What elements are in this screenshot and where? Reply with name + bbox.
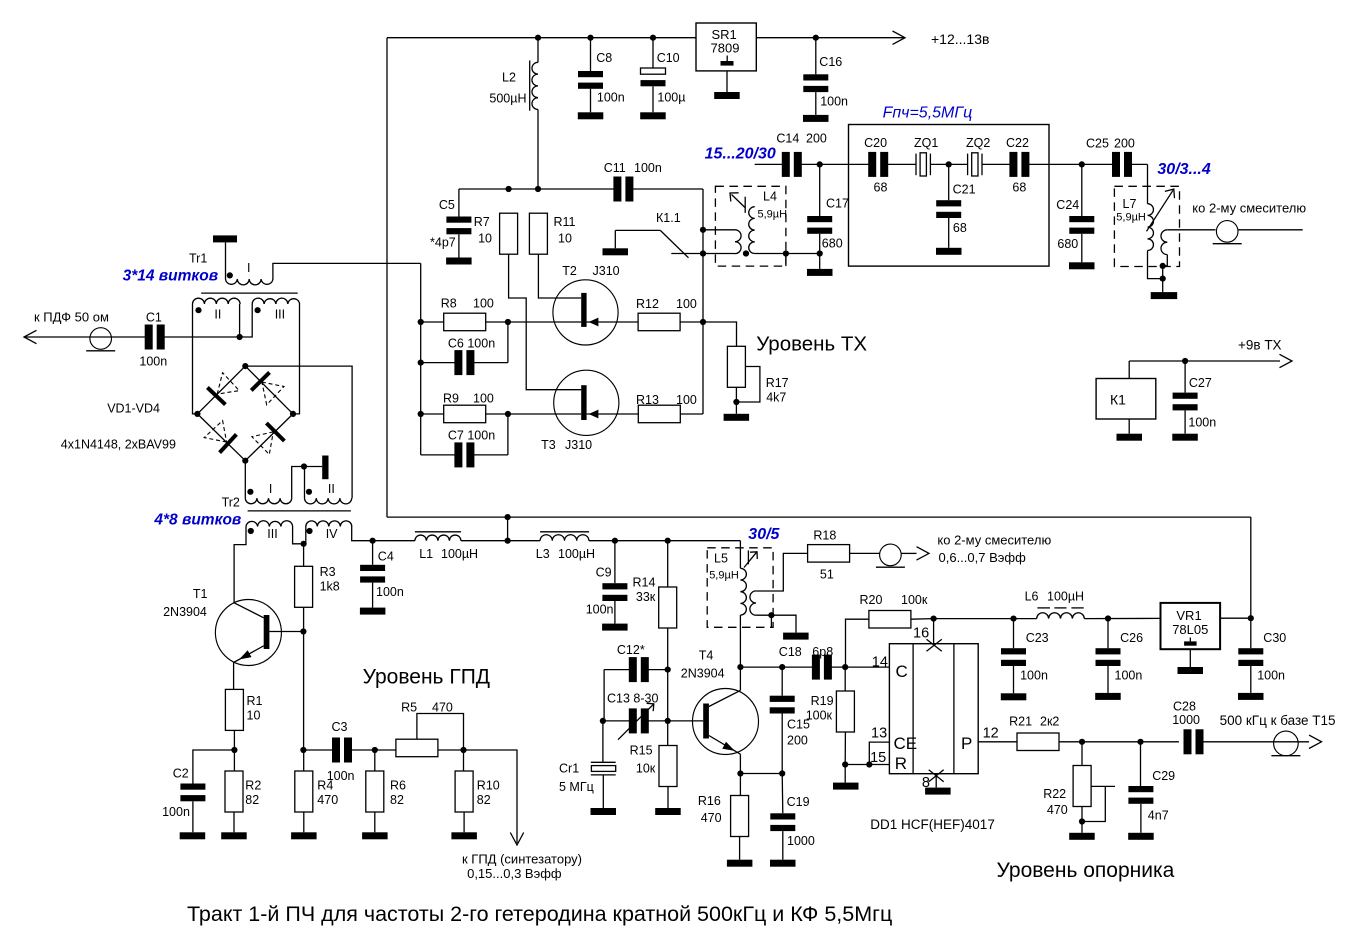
svg-text:30/5: 30/5 (748, 526, 780, 543)
wire filter internal (849, 163, 870, 165)
svg-text:R20: R20 (860, 593, 883, 607)
svg-text:15: 15 (870, 750, 886, 766)
svg-text:L4: L4 (763, 190, 777, 204)
ground under R22 (1069, 833, 1095, 840)
ground under C30 (1238, 693, 1264, 700)
wire VR1 out (1220, 617, 1251, 619)
inductor L4 winding (749, 207, 755, 254)
svg-text:R21: R21 (1009, 715, 1032, 729)
pin8 X mark and ground (929, 770, 944, 782)
transistor T1 2N3904 (215, 600, 281, 666)
resistor R18 51 (808, 545, 850, 563)
svg-text:51: 51 (820, 568, 834, 582)
ground under K1 (1117, 434, 1143, 441)
inductor L5 winding (740, 568, 746, 615)
svg-text:C26: C26 (1120, 631, 1143, 645)
L4 tuning arrow (732, 195, 746, 209)
svg-text:К1.1: К1.1 (656, 211, 681, 225)
capacitor C1 100n (145, 325, 153, 350)
wire +12V bus right drop to VR1 (1250, 517, 1252, 618)
svg-text:III: III (267, 527, 277, 541)
wire T4 emitter row (740, 773, 782, 775)
svg-text:13: 13 (871, 726, 887, 742)
wire R11 to T2 gate (538, 254, 581, 298)
svg-text:T4: T4 (699, 649, 714, 663)
wire +12V top rail left segment (387, 37, 696, 39)
svg-text:6p8: 6p8 (812, 645, 833, 659)
svg-text:R15: R15 (630, 744, 653, 758)
svg-text:100: 100 (473, 297, 494, 311)
capacitor C27 100n (1184, 361, 1186, 393)
svg-text:4*8 витков: 4*8 витков (153, 512, 241, 529)
svg-text:R: R (895, 754, 907, 773)
node ferrite bead output 2nd mixer (880, 544, 902, 566)
inductor L1 100uH (415, 531, 461, 533)
svg-text:P: P (961, 734, 972, 753)
capacitor C28 1000 (1184, 729, 1192, 754)
svg-text:82: 82 (390, 793, 404, 807)
svg-text:VR1: VR1 (1176, 608, 1201, 623)
svg-text:R1: R1 (247, 694, 263, 708)
capacitor C5 *4p7 (458, 189, 460, 217)
wire L7 bottoms to ground (1148, 251, 1163, 279)
svg-text:R11: R11 (554, 215, 576, 229)
svg-text:C11: C11 (604, 161, 626, 175)
svg-text:R12: R12 (636, 297, 659, 311)
resistor R11 10 (529, 213, 547, 254)
svg-text:5,9µН: 5,9µН (758, 209, 788, 221)
svg-text:100n: 100n (139, 355, 167, 369)
svg-text:R2: R2 (245, 779, 261, 793)
svg-text:100µ: 100µ (657, 91, 685, 105)
wire Tr2-I right to chassis (292, 467, 323, 499)
Tr1 core (201, 292, 298, 294)
capacitor C15 200 (781, 667, 783, 696)
svg-text:100к: 100к (901, 593, 928, 607)
svg-text:Tr2: Tr2 (222, 496, 240, 510)
wire pin13 jog (869, 742, 889, 764)
ground under C2 (180, 832, 206, 839)
svg-text:100: 100 (676, 297, 697, 311)
svg-text:100к: 100к (806, 709, 833, 723)
wire T4 emitter with arrow (709, 736, 741, 755)
svg-text:IV: IV (326, 527, 338, 541)
resistor R3 1k8 (303, 544, 305, 567)
transformer L5 secondary winding (750, 591, 756, 615)
L7 tuning arrow (1147, 190, 1174, 231)
wire L1/L3 feed row (373, 540, 415, 542)
transformer Tr2 winding IV (306, 521, 352, 527)
wire T1 base (269, 631, 303, 633)
wire GPD output (464, 750, 518, 843)
diode VD2 (251, 372, 269, 390)
svg-text:C29: C29 (1152, 769, 1175, 783)
R22 wiper tap (1091, 785, 1115, 787)
R17 wiper tap (736, 367, 760, 403)
resistor R13 100 (638, 405, 680, 423)
svg-text:100n: 100n (597, 91, 625, 105)
wire gate bias rail (459, 188, 615, 190)
transformer Tr1 winding III (252, 298, 299, 304)
svg-text:Tr1: Tr1 (189, 252, 207, 266)
svg-text:T3: T3 (541, 438, 556, 452)
wire L4 shield tie (785, 254, 787, 267)
L7 shield dashed box (1114, 186, 1179, 266)
ground under L7 (1151, 292, 1178, 299)
ground under C24 (1069, 262, 1095, 269)
node input arrow k PDF 50 om (24, 330, 37, 343)
crystal Cr1 5MHz (602, 721, 604, 762)
svg-text:C17: C17 (826, 197, 849, 211)
svg-text:C23: C23 (1026, 631, 1049, 645)
svg-text:5 МГц: 5 МГц (559, 780, 594, 794)
chassis bar above Tr1 (213, 235, 237, 242)
wire L5 bottom to T4 collector (739, 615, 741, 667)
svg-text:10: 10 (247, 709, 261, 723)
wire L4 top to C14 (755, 163, 783, 165)
ground under R19 (844, 765, 846, 783)
svg-text:C16: C16 (819, 55, 842, 69)
resistor R7 10 (500, 213, 518, 254)
wire pin16 (933, 619, 935, 644)
transformer Tr2 winding III (246, 521, 293, 527)
svg-text:R3: R3 (320, 565, 336, 579)
svg-text:C3: C3 (332, 720, 348, 734)
resistor R21 2k2 (1017, 733, 1059, 751)
svg-text:C6 100n: C6 100n (448, 337, 495, 351)
capacitor C11 100n (613, 177, 621, 202)
wire +12V top rail right segment (756, 37, 904, 39)
resistor R1 10 (225, 689, 243, 730)
regulator VR1 78L05 (1161, 603, 1221, 649)
wire bus tap to L1 row (507, 517, 509, 541)
svg-text:1000: 1000 (787, 834, 815, 848)
svg-text:200: 200 (787, 734, 808, 748)
wire Tr2-III right to R3 (293, 527, 304, 544)
svg-text:C: C (896, 662, 908, 681)
ground under C19 (770, 860, 796, 867)
IC DD1 4017 box (889, 644, 978, 774)
wire Tr1-II right to center tap (239, 304, 241, 337)
wire C11 to K1.1 node (632, 188, 703, 190)
svg-text:33к: 33к (636, 590, 656, 604)
svg-text:C22: C22 (1006, 136, 1029, 150)
svg-text:3*14 витков: 3*14 витков (123, 268, 219, 285)
L5 tuning arrow (744, 552, 757, 567)
svg-text:R14: R14 (633, 576, 656, 590)
crystal ZQ1 (915, 154, 917, 176)
ground under C4 (360, 608, 386, 615)
svg-text:2N3904: 2N3904 (163, 605, 207, 619)
diode VD1 (207, 388, 225, 405)
svg-text:0,15...0,3 Вэфф: 0,15...0,3 Вэфф (467, 866, 562, 881)
svg-text:ко 2-му смесителю: ко 2-му смесителю (1192, 201, 1306, 216)
node arrow +12...13v output (893, 31, 906, 44)
wire T4 collector (709, 690, 741, 706)
wire bridge top node to Tr2-II (245, 366, 352, 498)
svg-text:680: 680 (1057, 237, 1078, 251)
wire Tr1-II left to bridge (193, 304, 198, 414)
svg-text:100: 100 (676, 393, 697, 407)
capacitor C8 (587, 35, 593, 41)
inductor L7 winding (1148, 204, 1154, 251)
capacitor C19 1000 (781, 774, 784, 814)
svg-text:5,9µН: 5,9µН (1116, 212, 1146, 224)
svg-text:100µН: 100µН (558, 547, 595, 561)
ground under VR1 (1189, 649, 1191, 667)
svg-text:+9в ТХ: +9в ТХ (1238, 338, 1282, 353)
capacitor C30 100n (1250, 618, 1252, 648)
svg-text:L2: L2 (502, 71, 516, 85)
svg-text:III: III (275, 308, 285, 322)
ground under C10 (640, 112, 666, 119)
svg-text:VD1-VD4: VD1-VD4 (107, 402, 160, 416)
transformer Tr1 winding I (226, 279, 273, 285)
svg-text:100n: 100n (1115, 669, 1143, 683)
wire Tr2-III left to T1 collector (234, 527, 246, 603)
svg-text:100n: 100n (327, 769, 355, 783)
resistor R20 100k (846, 619, 870, 667)
svg-text:680: 680 (822, 237, 843, 251)
svg-text:1k8: 1k8 (320, 580, 340, 594)
svg-text:C4: C4 (378, 550, 394, 564)
svg-text:68: 68 (1012, 181, 1026, 195)
svg-text:C1: C1 (146, 311, 162, 325)
svg-text:68: 68 (953, 221, 967, 235)
svg-text:CE: CE (894, 734, 918, 753)
trimmer resistor R22 470 (1081, 742, 1083, 766)
ground under C26 (1095, 693, 1121, 700)
svg-text:I: I (269, 482, 272, 496)
node ferrite bead output to 2nd mixer (1216, 221, 1238, 243)
svg-text:10: 10 (478, 232, 492, 246)
ground under L5 (783, 633, 809, 640)
ground under R6 (362, 832, 388, 839)
svg-text:J310: J310 (593, 264, 620, 278)
wire R7 to T3 gate (509, 254, 582, 390)
svg-text:ZQ2: ZQ2 (966, 136, 990, 150)
resistor R12 100 (638, 313, 680, 331)
ground under R15 (655, 808, 681, 815)
svg-text:C8: C8 (596, 51, 612, 65)
svg-text:100n: 100n (162, 805, 190, 819)
svg-text:500µH: 500µH (489, 92, 526, 106)
wire T4 collector row (740, 666, 813, 668)
ground under C27 (1172, 434, 1198, 441)
svg-text:R19: R19 (811, 694, 834, 708)
transformer Tr1 winding II (193, 298, 241, 304)
capacitor C23 100n (1013, 619, 1015, 649)
svg-text:Уровень ТХ: Уровень ТХ (756, 333, 867, 356)
capacitor C29 4n7 (1140, 742, 1142, 786)
svg-text:5,9µН: 5,9µН (709, 570, 739, 582)
transformer L4 secondary winding (703, 229, 735, 231)
svg-text:1000: 1000 (1172, 713, 1200, 727)
inductor L2 (535, 35, 541, 41)
svg-text:100n: 100n (1020, 669, 1048, 683)
svg-text:+12...13в: +12...13в (931, 31, 989, 47)
svg-text:100: 100 (473, 392, 494, 406)
potentiometer R5 470 (396, 739, 438, 757)
ground under C23 (1001, 693, 1027, 700)
svg-text:C7 100n: C7 100n (448, 429, 495, 443)
wire L5 secondary bottom to ground (756, 615, 796, 632)
resistor R10 82 (463, 750, 465, 771)
svg-text:82: 82 (245, 793, 259, 807)
svg-text:4x1N4148, 2xBAV99: 4x1N4148, 2xBAV99 (61, 438, 176, 452)
L5 shield dashed box (707, 548, 773, 628)
svg-text:200: 200 (1114, 137, 1135, 151)
wire T1 collector (234, 603, 264, 618)
capacitor C2 100n (193, 750, 235, 784)
inductor L6 100uH (1037, 613, 1085, 619)
svg-text:C28: C28 (1173, 700, 1196, 714)
capacitor C22 68 (1009, 152, 1017, 177)
capacitor C10 (electrolytic) (650, 35, 656, 41)
capacitor C7 100n (421, 454, 456, 456)
svg-text:C2: C2 (173, 767, 189, 781)
capacitor C16 (813, 35, 819, 41)
svg-text:R10: R10 (477, 779, 500, 793)
resistor R6 82 (374, 750, 376, 771)
ground under R16 (727, 860, 753, 867)
wire C12 left down to C13 (603, 670, 605, 721)
svg-text:R6: R6 (390, 779, 406, 793)
svg-text:100µН: 100µН (441, 547, 478, 561)
svg-text:C21: C21 (953, 183, 976, 197)
capacitor C21 68 (948, 164, 950, 200)
svg-text:L1: L1 (419, 547, 433, 561)
diode VD4 (266, 423, 284, 441)
capacitor C24 680 (1081, 164, 1083, 216)
svg-text:C20: C20 (864, 136, 887, 150)
resistor R16 470 (739, 774, 741, 796)
diode bridge ring VD1-VD4 (197, 366, 245, 414)
svg-text:R18: R18 (813, 529, 836, 543)
svg-text:15...20/30: 15...20/30 (705, 146, 776, 163)
svg-text:L3: L3 (536, 547, 550, 561)
ground under C21 (936, 248, 962, 255)
svg-text:2к2: 2к2 (1040, 715, 1059, 729)
capacitor C6 100n (421, 362, 456, 364)
svg-text:Fпч=5,5МГц: Fпч=5,5МГц (883, 105, 973, 122)
ground under C8 (578, 112, 604, 119)
node ferrite bead 500kHz output (1274, 731, 1299, 756)
wire Tr1-I to left mixer bus (273, 263, 421, 279)
chassis bar at Tr2 (322, 456, 328, 480)
ground under R4 (291, 832, 317, 839)
ground under C29 (1128, 833, 1154, 840)
ground under SR1 (726, 71, 728, 92)
svg-text:100µН: 100µН (1047, 590, 1084, 604)
wire T4 base (668, 720, 703, 722)
transformer Tr2 winding I (245, 498, 291, 504)
wire R12 node to R17 (703, 322, 737, 346)
trimmer capacitor C13 8-30 (603, 720, 630, 722)
ground under C5 (446, 258, 472, 265)
svg-text:II: II (214, 308, 221, 322)
svg-text:10к: 10к (636, 762, 656, 776)
svg-text:12: 12 (983, 726, 999, 742)
resistor R4 470 (303, 750, 305, 771)
svg-text:4n7: 4n7 (1148, 809, 1169, 823)
svg-text:7809: 7809 (711, 41, 740, 56)
svg-text:10: 10 (558, 232, 572, 246)
svg-text:*4p7: *4p7 (430, 236, 456, 250)
C13 trimmer arrow (618, 704, 654, 740)
wire C1 to Tr1 center tap (164, 336, 240, 338)
ground at K1.1 (603, 248, 629, 255)
svg-text:ZQ1: ZQ1 (914, 136, 938, 150)
transistor T3 J310 (554, 370, 619, 435)
wire Tr1-III left to center tap (240, 304, 253, 337)
wire bridge bottom node to Tr2-I (244, 461, 246, 498)
wire T3 drain (508, 413, 581, 415)
svg-text:R16: R16 (698, 794, 721, 808)
capacitor C9 100n (614, 541, 616, 584)
svg-text:30/3...4: 30/3...4 (1157, 161, 1210, 178)
svg-text:68: 68 (874, 181, 888, 195)
svg-text:R17: R17 (766, 376, 789, 390)
capacitor C25 200 (1112, 152, 1120, 177)
ground under R2 (221, 832, 247, 839)
resistor R19 100k (844, 667, 846, 691)
wire Tr2-II left (304, 467, 306, 499)
wire +12V vertical bus left (386, 38, 388, 517)
svg-text:L6: L6 (1025, 590, 1039, 604)
svg-text:T1: T1 (193, 587, 208, 601)
wire filter box to C25 (1049, 163, 1113, 165)
wire T2 source with arrow (587, 321, 703, 323)
wire C25 to L7 (1131, 163, 1148, 165)
svg-text:4k7: 4k7 (766, 391, 786, 405)
regulator SR1 7809 (696, 23, 756, 71)
svg-text:L5: L5 (714, 552, 728, 566)
ground under Cr1 (591, 808, 617, 815)
svg-text:C14: C14 (776, 132, 799, 146)
svg-text:I: I (247, 261, 250, 275)
resistor R8 100 (421, 321, 444, 323)
svg-text:R22: R22 (1043, 787, 1066, 801)
ground under C9 (602, 624, 628, 631)
wire L5 secondary top to R18 (756, 553, 808, 591)
svg-text:R13: R13 (636, 393, 659, 407)
wire Tr1-III right to bridge (293, 304, 300, 414)
svg-text:C27: C27 (1189, 376, 1212, 390)
resistor R2 82 (233, 750, 235, 771)
svg-text:J310: J310 (565, 438, 592, 452)
capacitor C12* (604, 669, 630, 671)
svg-text:200: 200 (806, 132, 827, 146)
svg-text:470: 470 (317, 793, 338, 807)
capacitor C20 68 (868, 152, 876, 177)
wire +12V bus horizontal middle (387, 516, 1251, 518)
ground under C16 (803, 115, 829, 122)
svg-text:82: 82 (477, 793, 491, 807)
svg-text:500 кГц к базе Т15: 500 кГц к базе Т15 (1220, 713, 1336, 728)
svg-text:100n: 100n (376, 585, 404, 599)
svg-text:T2: T2 (562, 264, 577, 278)
svg-text:II: II (328, 482, 335, 496)
wire C14 to filter box (801, 163, 849, 165)
transistor T2 J310 (553, 280, 618, 345)
wire Tr2-IV left (305, 527, 307, 544)
svg-text:Тракт 1-й ПЧ для частоты 2-го: Тракт 1-й ПЧ для частоты 2-го гетеродина… (187, 902, 892, 926)
svg-text:R8: R8 (441, 297, 457, 311)
transformer L7 secondary winding (1161, 230, 1167, 255)
wire R13 up to R12 node (680, 413, 703, 415)
svg-text:ко 2-му смесителю: ко 2-му смесителю (937, 533, 1051, 548)
